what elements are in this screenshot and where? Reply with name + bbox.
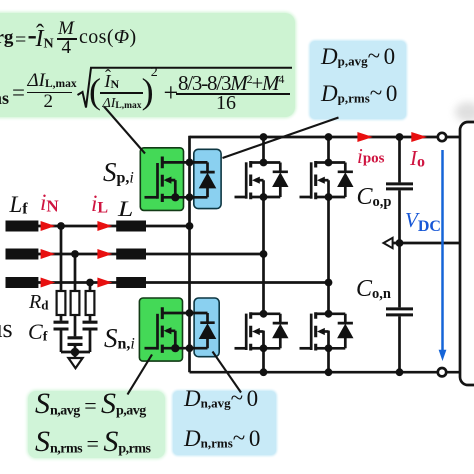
inductor Lf phase b [6,249,39,260]
node leg2 phase b junction [260,250,268,258]
node leg1 body join [171,193,179,201]
label Dn,avg ~ 0 [184,387,258,410]
label ipos [357,146,385,167]
load box [460,122,474,385]
node leg2 bottom drain [260,310,268,318]
node leg1 phase a junction [186,222,194,230]
node leg3 bottom rail junction [325,368,333,376]
formula background box [0,13,295,117]
label Lf [10,193,28,216]
node filter star point [71,348,80,357]
wire filter branch c [89,283,92,292]
node leg2 source [260,193,268,201]
capacitor Cf a [54,315,69,352]
label Dp,rms ~ 0 [321,82,397,105]
wire filter branch a [60,226,63,291]
transistor leg 3 top MOSFET [300,161,329,199]
node leg3 drain [325,159,333,167]
resistor Rd b [71,291,80,315]
node leg1 source [186,193,194,201]
label Io [410,148,425,169]
current arrow Io [411,132,427,142]
label Sn,rms = Sp,rms [35,427,150,457]
voltage arrow VDC [439,150,447,361]
formula line 1: avg = -IN M/4 cos(phi) [0,28,13,47]
inductor L phase b [116,249,146,260]
capacitor Co,p [386,137,413,243]
callout line diode Dn to label [213,352,242,393]
node leg1 bottom body join [171,344,179,352]
transistor leg 2 bottom MOSFET [235,312,264,350]
wire filter star join [61,352,90,358]
label VDC [405,210,441,231]
label mains (cut) [0,316,13,342]
callout line formula to Sp,i [104,107,145,154]
wire phase line c [38,281,329,284]
switch Sp,i highlight box [140,148,183,211]
node leg3 top rail junction [325,133,333,141]
wire phase line a [38,225,190,228]
wire leg 3 [327,136,330,372]
capacitor Co,n [386,243,413,372]
wire bottom rail [190,371,460,374]
wire filter branch b [74,254,77,291]
current arrow iN phase a [41,221,56,231]
diode Dp highlight box [194,149,221,208]
node leg2 bottom source [260,344,268,352]
label Rd [29,292,48,312]
label Cf [28,321,47,343]
node leg2 drain [260,159,268,167]
formula line 2: rms = dIL,max/2 sqrt(...) [0,89,9,107]
resistor Rd c [86,291,95,315]
node leg1 bottom source [186,344,194,352]
label Dp,avg ~ 0 [321,45,395,68]
diode Dn,i (leg 1 bottom) [190,313,217,348]
resistor Rd a [57,291,66,315]
current arrow iL phase b [97,249,112,259]
label iL [91,192,108,215]
label Dn,rms ~ 0 [184,427,260,450]
node filter tap a [57,222,65,230]
callout line Sn,i to label [128,355,153,395]
label Sn,avg = Sp,avg [35,389,146,419]
callout line diode Dp to label [223,118,339,159]
node output cap top junction [396,133,404,141]
capacitor Cf c [83,315,98,352]
node leg1 bottom drain [186,309,194,317]
switch Sn,i highlight box [139,298,182,361]
node leg2 top rail junction [260,133,268,141]
diode leg 3 bottom [329,314,354,349]
node leg3 phase c junction [325,279,333,287]
node filter tap c [86,279,94,287]
diode Dn highlight box [194,298,219,357]
inductor L phase c [116,277,146,288]
current arrow iN phase b [41,249,56,259]
node output cap midpoint [396,239,404,247]
transistor Sp,i (leg 1 top MOSFET) [145,157,190,203]
current arrow iL phase a [97,221,112,231]
current arrow iN phase c [41,278,56,288]
Dn label background box [173,391,276,455]
label iN [40,191,59,214]
wire phase line b [38,253,264,256]
node leg3 bottom drain [325,310,333,318]
radical sign [78,68,293,108]
label Co,p [357,185,392,209]
label Sp,i [103,159,134,186]
wire leg 2 [262,136,265,372]
wire leg 1 [188,136,191,372]
ground [68,358,82,368]
Dp label background box [310,41,406,119]
node output cap bottom junction [396,368,404,376]
midpoint arrow [384,238,393,248]
wire midpoint line [393,242,460,245]
wire top rail [190,136,460,139]
label Sn,i [104,325,135,352]
terminal circle top [438,133,446,141]
diode leg 2 top [264,163,289,198]
node leg3 source [325,193,333,201]
node leg1 drain [186,159,194,167]
transistor Sn,i (leg 1 bottom MOSFET) [145,307,190,353]
current arrow iL phase c [97,278,112,288]
transistor leg 2 top MOSFET [235,161,264,199]
capacitor Cf b [68,315,83,352]
node leg3 bottom source [325,344,333,352]
diode leg 2 bottom [264,314,289,349]
label L [118,198,133,220]
inductor Lf phase a [6,221,39,232]
diode Dp,i (leg 1 top) [190,162,217,197]
diode leg 3 top [329,163,354,198]
terminal circle bottom [438,368,446,376]
current arrow ipos [357,132,372,142]
inductor L phase a [116,221,146,232]
node leg2 bottom rail junction [260,368,268,376]
inductor Lf phase c [6,277,39,288]
smudge artifact [455,102,474,122]
Sn label background box [28,391,165,458]
node filter tap b [71,250,79,258]
transistor leg 3 bottom MOSFET [300,312,329,350]
label Co,n [356,277,391,301]
